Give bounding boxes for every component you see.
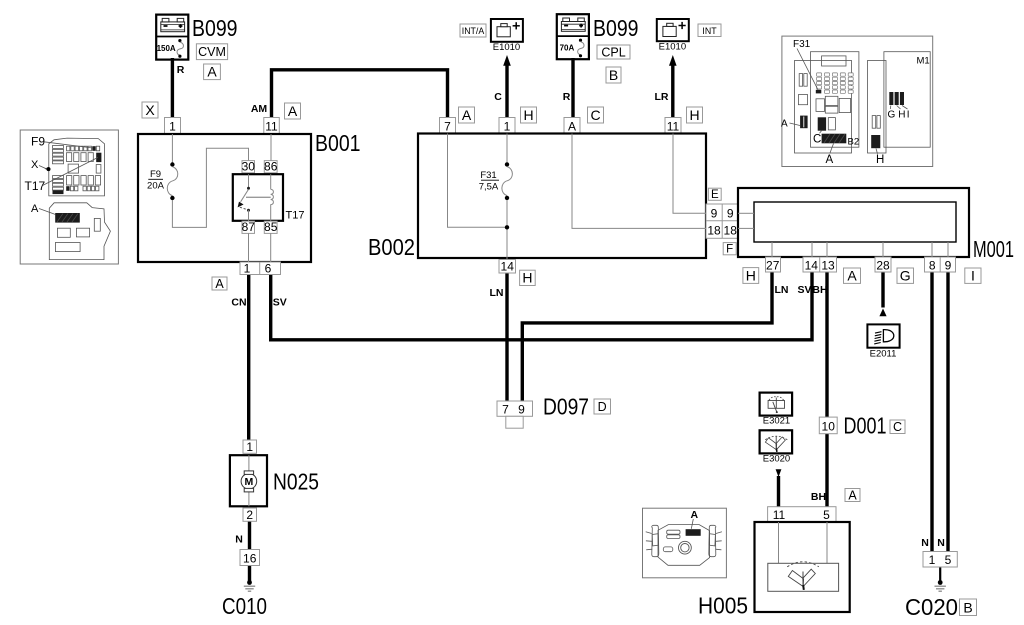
M1 panel xyxy=(868,61,887,154)
wire from M001 pin 28 to E2011 xyxy=(881,271,884,308)
svg-text:T17: T17 xyxy=(25,179,46,193)
left stalk xyxy=(652,525,659,556)
svg-text:9: 9 xyxy=(727,207,734,221)
svg-text:X: X xyxy=(31,159,39,171)
svg-text:C: C xyxy=(494,91,502,103)
D001 pin 10 xyxy=(819,417,837,434)
relay T17 box xyxy=(233,174,283,221)
svg-text:E3020: E3020 xyxy=(763,454,790,465)
location inset engine fusebox xyxy=(20,130,118,264)
svg-text:A: A xyxy=(847,268,857,284)
code box INT xyxy=(698,24,721,37)
B001 bottom pins 1 6 xyxy=(240,261,281,275)
code box H xyxy=(521,107,537,123)
fuse F9 branch wire xyxy=(171,134,173,163)
arrow to E1010 xyxy=(669,55,677,66)
wire R battery B099 to B001 pin 1 xyxy=(171,58,174,119)
svg-text:D001: D001 xyxy=(844,413,887,439)
svg-text:CVM: CVM xyxy=(198,45,226,59)
svg-text:14: 14 xyxy=(805,258,819,272)
svg-text:13: 13 xyxy=(821,258,835,272)
svg-text:C020: C020 xyxy=(905,594,958,620)
svg-text:11: 11 xyxy=(667,119,680,133)
connector A highlighted xyxy=(800,116,808,129)
svg-text:B099: B099 xyxy=(593,15,639,41)
svg-text:D097: D097 xyxy=(543,394,589,420)
stalk detail bars xyxy=(667,530,680,534)
H005 inner block xyxy=(768,563,839,591)
svg-text:16: 16 xyxy=(243,551,257,565)
svg-text:N: N xyxy=(235,534,243,546)
svg-text:LN: LN xyxy=(490,287,504,299)
svg-text:CPL: CPL xyxy=(601,45,625,59)
svg-text:1: 1 xyxy=(504,119,511,133)
svg-text:M001: M001 xyxy=(973,236,1014,262)
code box B xyxy=(606,67,621,83)
leader A xyxy=(830,144,834,154)
code box E xyxy=(708,188,721,201)
svg-text:C: C xyxy=(893,420,902,434)
svg-text:B: B xyxy=(609,67,618,83)
B002 pin 7 xyxy=(440,118,456,134)
svg-text:20A: 20A xyxy=(147,181,165,192)
svg-text:CN: CN xyxy=(231,296,246,308)
svg-text:1: 1 xyxy=(244,261,251,275)
code box D xyxy=(594,399,611,414)
svg-text:7: 7 xyxy=(502,402,509,416)
svg-text:BH: BH xyxy=(811,491,826,503)
svg-text:5: 5 xyxy=(823,508,830,522)
svg-text:N: N xyxy=(921,537,929,549)
B002 pin A xyxy=(564,118,580,134)
connector H highlighted xyxy=(871,135,880,148)
code box CPL xyxy=(597,45,630,59)
svg-text:BH: BH xyxy=(812,284,827,296)
code box H xyxy=(743,267,759,283)
connectors G H I highlighted xyxy=(889,92,904,105)
relay T17 pin 85 xyxy=(264,220,278,234)
svg-text:F31: F31 xyxy=(480,170,496,181)
relay T17 pin 86 xyxy=(264,160,278,174)
code box F xyxy=(723,243,736,256)
fusebox B002 xyxy=(418,134,706,259)
leader H xyxy=(876,149,878,154)
wire from E3020 arrow to H005 pin 11 xyxy=(777,476,780,508)
relay T17 pin 87 xyxy=(242,220,256,234)
relay T17 link xyxy=(246,196,271,198)
wire B002 pin 11 internal xyxy=(673,134,706,214)
switch A highlighted xyxy=(686,529,701,536)
svg-text:C: C xyxy=(590,107,600,123)
svg-text:C: C xyxy=(813,133,821,145)
ground C020 xyxy=(935,580,946,591)
code box B xyxy=(960,599,977,616)
location inset steering column switch xyxy=(643,508,727,578)
svg-text:M: M xyxy=(245,476,254,488)
svg-text:R: R xyxy=(563,91,571,103)
fusebox B001 xyxy=(138,134,311,262)
fuse F9 label xyxy=(147,169,165,192)
svg-text:E1010: E1010 xyxy=(659,42,686,53)
code box X xyxy=(142,102,158,118)
svg-text:X: X xyxy=(145,102,155,118)
svg-text:H: H xyxy=(898,109,905,120)
svg-text:A: A xyxy=(31,203,39,215)
svg-text:11: 11 xyxy=(773,508,786,522)
svg-text:G: G xyxy=(888,109,896,120)
svg-text:I: I xyxy=(907,109,910,120)
svg-text:H: H xyxy=(876,154,884,166)
svg-text:7: 7 xyxy=(444,119,451,133)
wire pin 16 to ground C010 xyxy=(248,565,251,581)
H005 pins 11 5 xyxy=(768,507,836,522)
wire N from M001 pin 8 to C020 pin 1 xyxy=(930,271,933,552)
relay T17 coil xyxy=(271,174,274,221)
svg-text:R: R xyxy=(177,64,185,76)
svg-text:9: 9 xyxy=(518,402,525,416)
svg-text:M1: M1 xyxy=(917,56,930,67)
svg-text:LN: LN xyxy=(775,284,789,296)
svg-text:E1010: E1010 xyxy=(493,42,520,53)
leader A xyxy=(691,519,693,529)
leader A xyxy=(39,209,56,215)
windscreen washer E3020 xyxy=(760,430,793,453)
code box CVM xyxy=(196,44,227,60)
svg-text:H: H xyxy=(689,107,699,123)
svg-text:7,5A: 7,5A xyxy=(479,182,499,193)
svg-text:T17: T17 xyxy=(286,210,305,222)
svg-text:10: 10 xyxy=(822,419,836,433)
svg-text:86: 86 xyxy=(264,160,278,174)
code box A xyxy=(844,268,861,284)
B001 pin 1 xyxy=(165,118,181,135)
wire AM from B002 pin 7 to B001 pin 11 xyxy=(272,70,448,119)
relay T17 pin 30 xyxy=(242,160,256,174)
connector D097 xyxy=(497,401,533,428)
B001 pin 11 xyxy=(264,118,280,135)
B002 pin 1 xyxy=(499,118,515,134)
wire relay 87 to B001 pin 1 out xyxy=(248,233,250,262)
wiper motor N025 xyxy=(230,455,267,506)
svg-text:F9: F9 xyxy=(150,169,161,180)
M001 pin 27 xyxy=(766,257,781,272)
fuse F31 label xyxy=(479,170,499,193)
wire LN from M001 pin 27 to D097 pin 9 xyxy=(522,271,772,402)
relay T17 contact xyxy=(238,174,250,221)
wire C020 pins to ground xyxy=(939,566,941,581)
svg-text:B099: B099 xyxy=(192,15,238,41)
code box H xyxy=(687,107,703,123)
battery B099 150A xyxy=(156,15,188,60)
svg-text:A: A xyxy=(826,154,834,166)
svg-text:INT/A: INT/A xyxy=(462,26,485,36)
B002 pin 14 xyxy=(499,259,516,273)
code box A xyxy=(845,488,860,502)
svg-text:9: 9 xyxy=(945,258,952,272)
svg-text:150A: 150A xyxy=(157,44,176,53)
C010 pin 16 xyxy=(240,550,260,566)
connector C highlighted xyxy=(818,117,826,130)
wire LN from B002 pin 14 to D097 pin 7 xyxy=(505,272,508,402)
M001 body control box xyxy=(738,188,969,257)
leader T17 xyxy=(43,158,98,186)
connector block 9 18 xyxy=(706,204,738,238)
connector A highlighted xyxy=(55,213,80,223)
code box C xyxy=(890,420,905,434)
svg-text:18: 18 xyxy=(724,224,738,238)
right stalk xyxy=(709,525,716,556)
svg-text:1: 1 xyxy=(169,119,176,133)
svg-text:A: A xyxy=(781,118,788,129)
C020 pins 1 5 xyxy=(923,552,957,568)
svg-text:INT: INT xyxy=(702,26,717,36)
wire B002 pin A internal xyxy=(572,134,706,229)
svg-text:B002: B002 xyxy=(368,234,415,260)
svg-text:87: 87 xyxy=(242,220,256,234)
svg-text:H005: H005 xyxy=(698,593,748,619)
svg-text:AM: AM xyxy=(251,103,268,115)
svg-text:F31: F31 xyxy=(793,39,811,50)
svg-text:14: 14 xyxy=(501,259,515,273)
svg-text:5: 5 xyxy=(945,553,952,567)
svg-text:H: H xyxy=(746,267,756,283)
svg-text:6: 6 xyxy=(265,261,272,275)
svg-text:D: D xyxy=(598,400,607,414)
svg-text:1: 1 xyxy=(246,440,253,454)
code box H xyxy=(520,270,536,286)
wire SV from B001 pin 6 to M001 pin 14 xyxy=(271,271,812,340)
svg-text:8: 8 xyxy=(929,258,936,272)
svg-text:9: 9 xyxy=(711,207,718,221)
code box A xyxy=(204,64,221,80)
wire B002 pin 7 internal xyxy=(448,134,506,228)
battery B099 70A xyxy=(557,14,589,59)
svg-text:E: E xyxy=(711,189,719,201)
code box INT/A xyxy=(460,24,486,37)
svg-text:A: A xyxy=(848,488,857,502)
N025 pin 2 xyxy=(243,508,257,522)
M001 pins 8 9 xyxy=(925,257,956,272)
svg-text:30: 30 xyxy=(242,160,256,174)
svg-text:G: G xyxy=(900,268,911,284)
svg-text:C010: C010 xyxy=(222,593,267,619)
code box A xyxy=(459,107,475,123)
svg-text:B2: B2 xyxy=(848,136,860,147)
svg-text:I: I xyxy=(971,268,975,284)
svg-text:A: A xyxy=(207,64,217,80)
wire N025 pin 2 to pin 16 xyxy=(248,520,251,550)
node dot X xyxy=(47,167,51,171)
wire pin 11 to relay coil xyxy=(270,134,272,161)
connector E1010 symbol 2 xyxy=(657,19,689,41)
svg-text:11: 11 xyxy=(265,119,278,133)
svg-text:F9: F9 xyxy=(31,135,45,149)
wiper switch H005 xyxy=(755,522,850,612)
fuse F31 branch xyxy=(502,134,513,260)
connector B2 highlighted xyxy=(822,134,847,144)
code box A xyxy=(285,103,301,119)
svg-text:85: 85 xyxy=(264,220,278,234)
svg-text:A: A xyxy=(462,107,472,123)
wire LR from B002 pin 11 to E1010 xyxy=(671,65,674,120)
ground C010 xyxy=(244,580,255,591)
svg-text:A: A xyxy=(215,277,224,291)
svg-text:B: B xyxy=(963,599,972,615)
svg-text:LR: LR xyxy=(655,91,669,103)
leader F9 xyxy=(44,142,93,148)
fuse F31 highlighted xyxy=(816,90,822,94)
arrow from E3020 xyxy=(776,469,782,477)
H005 internal wires xyxy=(779,522,828,563)
svg-text:N025: N025 xyxy=(273,469,319,495)
battery support drawing xyxy=(49,203,110,260)
svg-text:H: H xyxy=(523,107,533,123)
svg-text:SV: SV xyxy=(273,296,287,308)
wire C from B002 pin 1 to E1010 xyxy=(505,65,508,120)
N025 pin 1 xyxy=(243,440,257,454)
svg-text:E2011: E2011 xyxy=(870,349,897,360)
code box C xyxy=(588,107,604,123)
svg-text:F: F xyxy=(726,244,733,256)
headlamp E2011 xyxy=(867,324,899,347)
rear washer E3021 xyxy=(760,393,793,416)
wire relay 85 to B001 pin 6 out xyxy=(270,233,272,262)
code box G xyxy=(897,268,914,284)
location inset dashboard fusebox xyxy=(781,36,933,166)
svg-text:70A: 70A xyxy=(560,44,575,53)
svg-text:1: 1 xyxy=(929,553,936,567)
leader A xyxy=(790,123,801,126)
svg-text:N: N xyxy=(937,537,945,549)
arrow to E2011 xyxy=(879,309,886,317)
svg-text:18: 18 xyxy=(707,224,721,238)
M001 pin 28 xyxy=(875,257,891,272)
M001 internal stubs xyxy=(738,213,948,257)
svg-text:E3021: E3021 xyxy=(763,415,790,426)
svg-text:A: A xyxy=(288,103,298,119)
wire N from M001 pin 9 to C020 pin 5 xyxy=(946,271,949,552)
svg-text:2: 2 xyxy=(246,508,253,522)
svg-text:A: A xyxy=(691,509,699,521)
switch ring xyxy=(679,541,692,554)
M001 inner board xyxy=(754,202,956,242)
wire R from battery B099 70A to B002 pin A xyxy=(571,58,574,119)
arrow to E1010 xyxy=(503,55,511,66)
H005 wiper icon xyxy=(787,562,819,590)
code box A xyxy=(212,277,227,291)
svg-text:H: H xyxy=(522,270,532,286)
relay T17 highlighted xyxy=(96,153,101,162)
leader F31 xyxy=(797,49,818,90)
svg-text:27: 27 xyxy=(766,258,780,272)
B002 pin 11 xyxy=(665,118,681,134)
svg-text:SV: SV xyxy=(797,284,811,296)
M001 pins 14 13 xyxy=(803,257,837,272)
leader X xyxy=(39,166,46,169)
svg-text:28: 28 xyxy=(876,258,890,272)
connector E1010 symbol 1 xyxy=(491,19,523,42)
wire BH from M001 pin 13 to H005 pin 5 xyxy=(825,271,828,508)
leader C xyxy=(820,131,822,133)
svg-text:A: A xyxy=(568,119,576,133)
wire CN from B001 pin 1 to N025 pin 1 xyxy=(247,273,250,441)
fuse F9 highlighted xyxy=(92,146,95,151)
code box I xyxy=(965,268,981,284)
svg-text:B001: B001 xyxy=(315,130,361,156)
